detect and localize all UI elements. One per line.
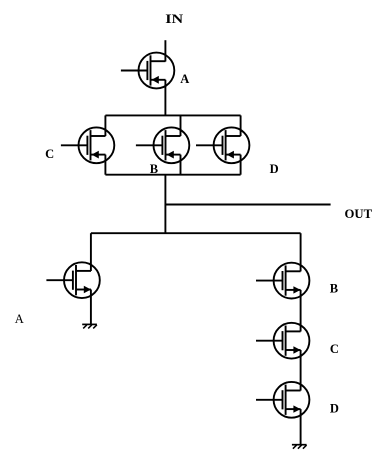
svg-text:D: D [330,402,339,416]
wire bottom rail [105,174,240,176]
wire bottom rail to branch rail (OUT node vertical) [164,175,166,234]
transistor A (bottom left, n-type arrow-right) [46,262,99,298]
wire IN to Q-A drain [164,40,166,61]
wire branch rail to Q-B(right) drain [300,233,302,271]
wire Q-B drain to top rail [180,115,182,136]
transistor B (right chain, arrow-right) [256,263,309,299]
wire branch rail [91,232,301,234]
svg-text:IN: IN [165,12,183,26]
wire top rail [105,114,240,116]
wire Q-A(bottom) source to ground [90,290,92,325]
svg-text:D: D [270,162,279,176]
wire OUT horizontal [165,204,330,206]
wire Q-C source to bottom rail [104,155,106,175]
transistor C (middle row left, arrow-left) [61,127,114,163]
wire Q-A source to top rail [164,80,166,116]
transistor C (right chain, arrow-right) [256,323,309,359]
ground (bottom left) [82,324,97,328]
svg-text:C: C [45,147,54,161]
svg-text:A: A [180,72,189,86]
svg-text:A: A [15,312,24,326]
wire branch rail to Q-A(bottom) drain [90,233,92,271]
wire Q-D drain to top rail [240,115,242,136]
wire Q-D source to bottom rail [240,155,242,175]
wire Q-C(right) source to Q-D(right) drain [300,350,302,391]
wire Q-C drain to top rail [104,115,106,136]
svg-text:OUT: OUT [345,207,373,221]
transistor D (middle row right, arrow-left) [196,127,249,163]
svg-text:C: C [330,342,339,356]
transistor B (middle row center, arrow-left) [136,127,189,163]
wire Q-D(right) source to ground [300,409,302,445]
wire Q-B source to bottom rail [180,155,182,175]
wire Q-B(right) source to Q-C(right) drain [300,290,302,332]
transistor D (right chain, arrow-right) [256,382,309,418]
ground (bottom right) [292,445,307,449]
transistor A (top, p-type arrow-left) [121,53,174,89]
svg-text:B: B [330,282,338,296]
svg-text:B: B [150,162,158,176]
